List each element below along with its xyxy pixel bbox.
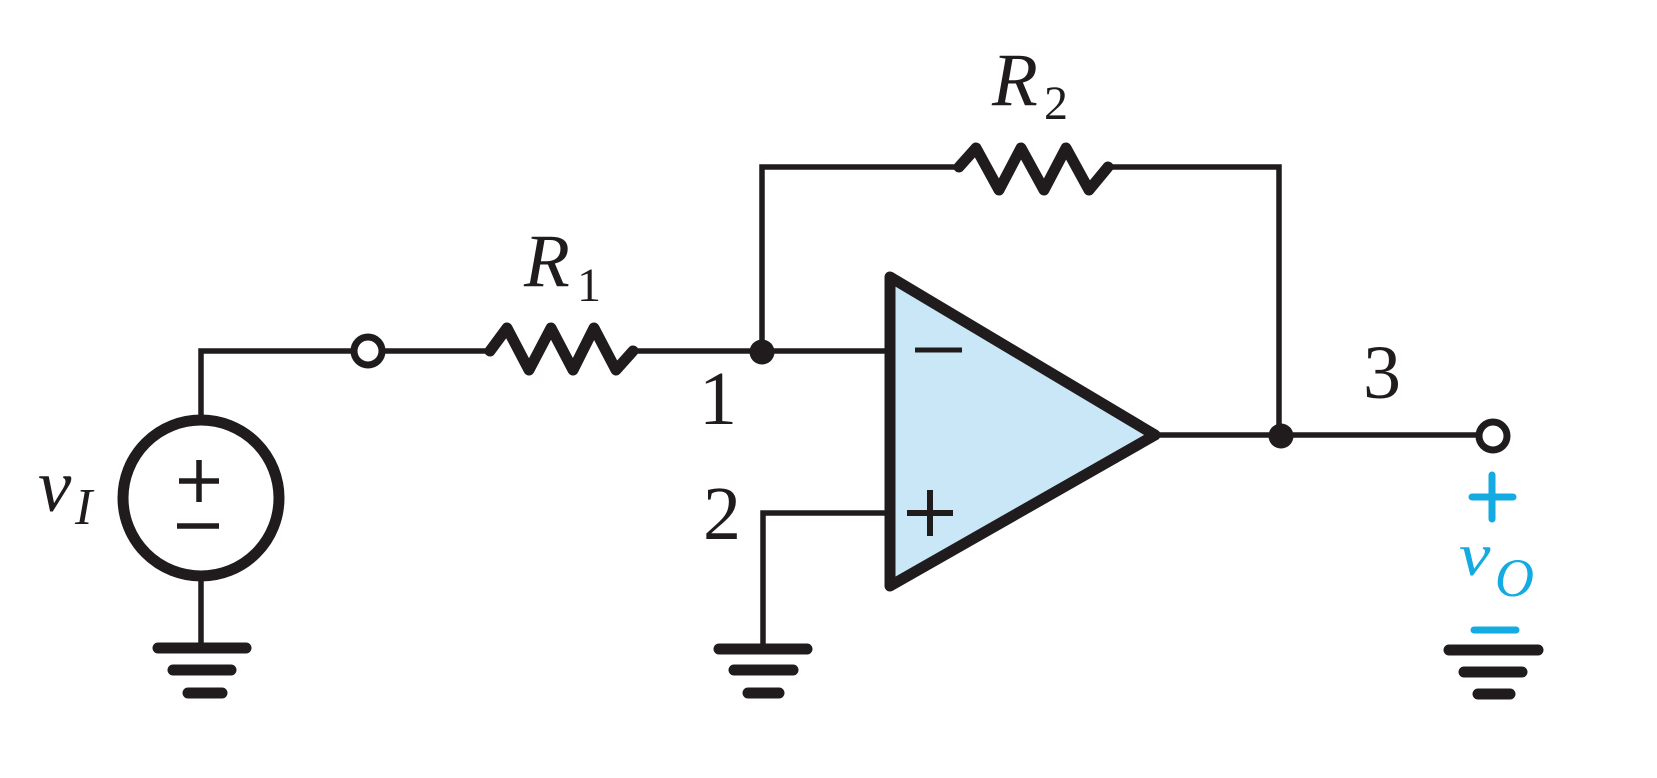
wire source bottom to ground (198, 576, 204, 646)
ground (below node 2) (719, 649, 807, 693)
input terminal (open circle) (354, 337, 382, 365)
svg-text:2: 2 (703, 472, 741, 556)
ground (below source) (158, 648, 246, 693)
source minus symbol (177, 523, 219, 529)
svg-text:v: v (38, 445, 72, 528)
voltage source v_I (123, 420, 279, 576)
op-amp non-inverting input symbol (plus) (907, 490, 953, 536)
svg-text:1: 1 (577, 259, 601, 312)
resistor R2 (959, 148, 1108, 190)
output wire (1157, 432, 1493, 438)
node 1 (junction dot) (750, 340, 775, 365)
wire feedback right vertical (1108, 167, 1279, 435)
ground (output reference) (1449, 650, 1538, 694)
svg-text:R: R (991, 39, 1038, 122)
output terminal (open circle) (1479, 422, 1507, 450)
svg-text:R: R (523, 220, 570, 303)
svg-text:v: v (1459, 523, 1491, 589)
wire input terminal to resistor R1 (368, 348, 490, 354)
op-amp U1 (890, 277, 1155, 586)
svg-text:3: 3 (1363, 331, 1401, 415)
source plus symbol (179, 460, 219, 502)
op-amp inverting input symbol (minus) (915, 348, 962, 353)
wire node 2 to op-amp non-inverting input (763, 513, 890, 646)
label minus (output polarity, cyan) (1474, 627, 1516, 634)
svg-text:2: 2 (1044, 77, 1068, 130)
wire R1 to op-amp inverting input (633, 348, 890, 354)
node 3 (junction dot) (1269, 424, 1294, 449)
svg-text:O: O (1495, 548, 1534, 608)
wire source top to input terminal (201, 351, 368, 420)
svg-text:1: 1 (699, 357, 737, 441)
svg-text:I: I (74, 479, 95, 536)
label + (output polarity, cyan) (1472, 475, 1513, 519)
wire feedback left vertical (762, 167, 959, 351)
resistor R1 (490, 328, 633, 370)
